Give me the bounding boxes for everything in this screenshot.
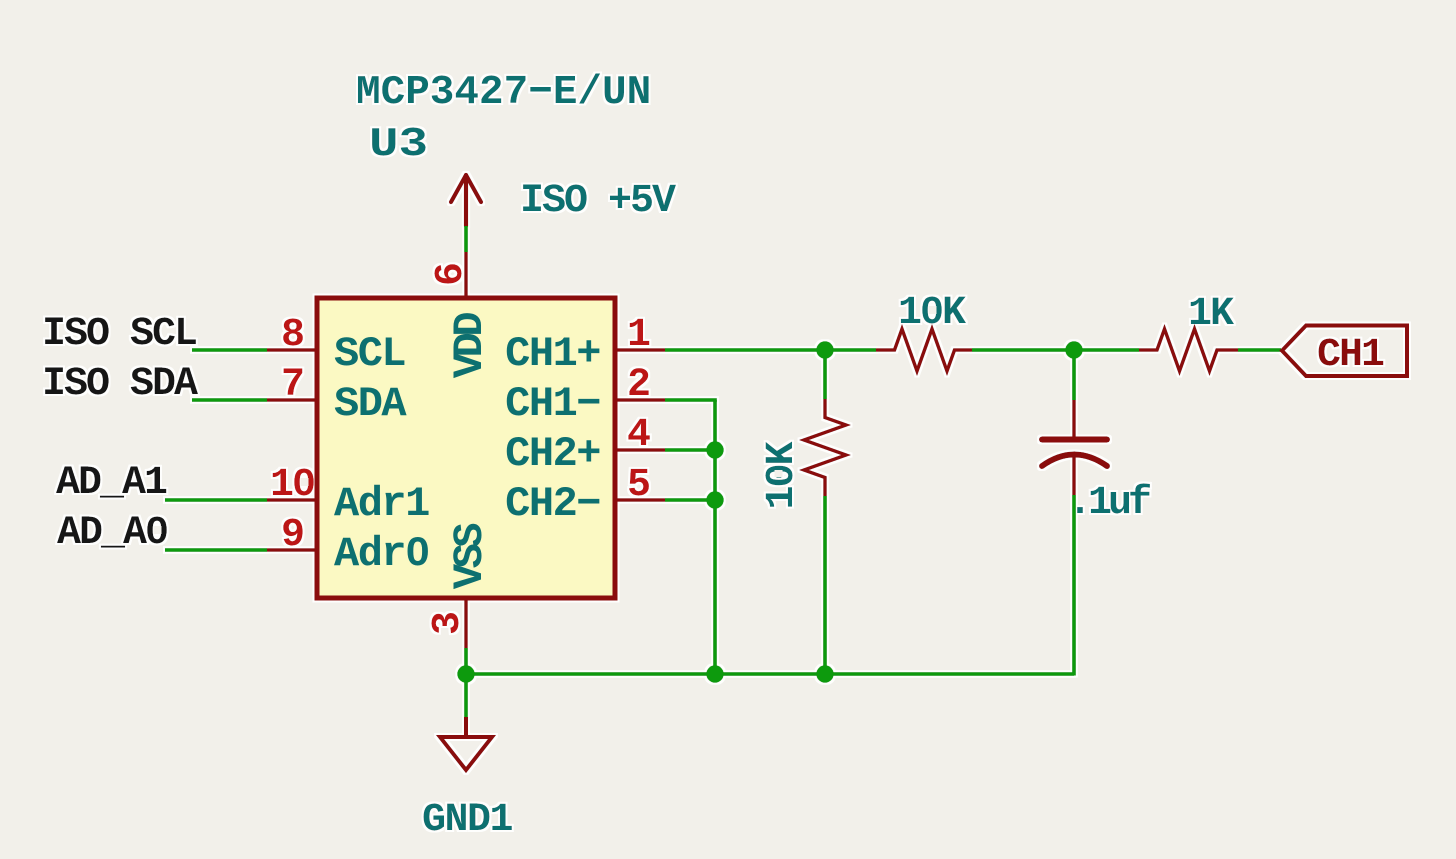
wire pin2 horizontal (665, 398, 717, 402)
wire vertical bus x=715 (713, 400, 717, 674)
pin 7 SDA (267, 398, 317, 402)
svg-text:U3: U3 (369, 121, 428, 168)
capacitor C1 .1uf (1042, 400, 1107, 495)
pin 1 CH1+ (615, 348, 665, 352)
junction node R1/gnd (816, 665, 834, 683)
svg-text:CH2−: CH2− (505, 480, 600, 528)
wire capacitor top (1072, 350, 1076, 400)
pin 6 VDD (top) (464, 252, 468, 298)
wire junction to R3 (1074, 348, 1139, 352)
wire AD_A0 to pin 9 (165, 548, 267, 552)
wire R3 to CH1 tag (1238, 348, 1281, 352)
svg-text:ISO SDA: ISO SDA (42, 362, 198, 407)
wire ISO SCL to pin 8 (192, 348, 267, 352)
svg-text:1: 1 (627, 313, 650, 358)
wire pin1 to resistor R2 (665, 348, 876, 352)
resistor R2 10K horizontal (876, 329, 972, 371)
svg-text:Adr1: Adr1 (334, 480, 429, 528)
svg-text:AD_A1: AD_A1 (56, 461, 167, 506)
zero glyph dot patches (match plain-zero font) (154, 306, 937, 555)
wire AD_A1 to pin 10 (165, 498, 267, 502)
svg-text:ISO +5V: ISO +5V (520, 179, 676, 224)
wire R2 to junction (972, 348, 1074, 352)
svg-text:2: 2 (627, 363, 649, 408)
resistor R3 1K horizontal (1139, 329, 1238, 371)
hierarchical label CH1 (1282, 326, 1407, 377)
svg-text:.1uf: .1uf (1068, 481, 1150, 526)
svg-text:3: 3 (426, 613, 471, 635)
pin 5 CH2- (615, 498, 665, 502)
svg-text:ISO SCL: ISO SCL (42, 312, 196, 357)
wire pin4 horizontal (665, 448, 715, 452)
svg-text:CH1−: CH1− (505, 380, 600, 428)
pin 4 CH2+ (615, 448, 665, 452)
ground GND1 symbol (440, 717, 492, 770)
svg-text:GND1: GND1 (422, 798, 513, 843)
svg-text:AD_A0: AD_A0 (57, 511, 167, 556)
wire capacitor bottom to bus (1072, 495, 1076, 676)
pin 9 Adr0 (267, 548, 317, 552)
wire pin6 to power (464, 226, 468, 252)
svg-text:4: 4 (627, 413, 650, 458)
junction node pin1/R1 (816, 341, 834, 359)
junction node bus/gnd (706, 665, 724, 683)
svg-text:VSS: VSS (446, 524, 494, 589)
power symbol ISO +5V arrow (451, 175, 481, 226)
svg-text:8: 8 (281, 313, 303, 358)
pin 2 CH1- (615, 398, 665, 402)
svg-text:9: 9 (281, 513, 303, 558)
pin 3 VSS (bottom) (464, 600, 468, 648)
svg-text:CH1: CH1 (1317, 333, 1384, 378)
svg-text:SCL: SCL (334, 330, 405, 378)
svg-text:5: 5 (627, 463, 649, 508)
wire vertical 10K top (823, 350, 827, 399)
IC U3 MCP3427-E/UN body (317, 298, 615, 598)
svg-text:VDD: VDD (446, 313, 494, 378)
junction node pin4 (706, 441, 724, 459)
wire pin3 to ground (464, 648, 468, 717)
junction node gnd pin3 (457, 665, 475, 683)
svg-text:7: 7 (281, 363, 303, 408)
wire ISO SDA to pin 7 (192, 398, 267, 402)
svg-text:1K: 1K (1188, 292, 1234, 337)
junction node pin5 (706, 491, 724, 509)
svg-text:CH2+: CH2+ (505, 430, 600, 478)
svg-text:CH1+: CH1+ (505, 330, 600, 378)
pin 8 SCL (267, 348, 317, 352)
svg-text:SDA: SDA (334, 380, 407, 428)
pin 10 Adr1 (267, 498, 317, 502)
resistor R1 10K vertical (804, 399, 846, 496)
junction node R2/C1 (1065, 341, 1083, 359)
svg-text:6: 6 (429, 264, 474, 286)
wire vertical 10K bottom (823, 496, 827, 674)
wire bottom ground bus (466, 672, 1074, 676)
wire pin5 horizontal (665, 498, 715, 502)
svg-text:MCP3427−E/UN: MCP3427−E/UN (356, 70, 651, 116)
